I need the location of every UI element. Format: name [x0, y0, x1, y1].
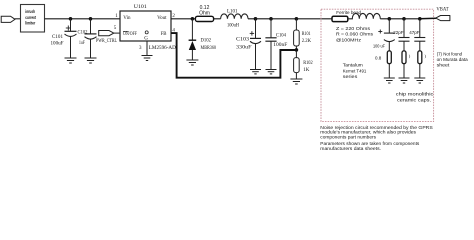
node junction C103 [254, 17, 258, 21]
svg-text:on Murata data: on Murata data [437, 57, 468, 62]
resistor ESR 22pF branch [402, 51, 411, 78]
wire 22pF node to 47pF node [404, 18, 420, 20]
wire feedback FB pin 4 to divider (thick) [171, 33, 296, 78]
svg-text:PWR_CTRL: PWR_CTRL [96, 39, 117, 44]
node junction tantalum cap [388, 17, 392, 21]
svg-text:C102: C102 [78, 30, 88, 35]
svg-text:100uH: 100uH [227, 23, 239, 28]
capacitor C102 1uF [78, 19, 97, 58]
svg-text:FB: FB [161, 32, 167, 37]
svg-text:chip monolithic: chip monolithic [396, 92, 434, 97]
wire R101 node to ferrite bead [296, 18, 332, 20]
svg-text:R102: R102 [303, 61, 313, 66]
resistor ESR 0.8 [375, 51, 391, 78]
node junction C101 [69, 17, 73, 21]
ground D102 [186, 60, 198, 65]
svg-text:Kemet T491: Kemet T491 [343, 68, 367, 73]
wire VIN rail: inrush limiter to U101 Vin [45, 18, 121, 20]
ground C104 [266, 70, 277, 74]
ground 47pF branch [414, 78, 425, 83]
svg-text:series: series [343, 74, 358, 79]
node junction 22pF [402, 17, 406, 21]
node junction R101 [295, 17, 299, 21]
ferrite bead specs label [336, 26, 374, 42]
svg-text:current: current [25, 15, 36, 20]
svg-text:ON/OFF: ON/OFF [123, 32, 137, 37]
svg-text:330uF: 330uF [236, 46, 252, 51]
murata note label [437, 52, 468, 68]
port input connector [1, 16, 15, 22]
ground 22pF branch [399, 78, 410, 83]
resistor R sense 0.12 Ohm [195, 5, 213, 22]
svg-text:ceramic caps.: ceramic caps. [397, 98, 431, 103]
svg-text:components part numbers: components part numbers [320, 135, 376, 140]
ground tantalum branch [384, 78, 395, 83]
wire tantalum node to 22pF node [389, 18, 404, 20]
svg-text:manufacturers data sheets.: manufacturers data sheets. [320, 146, 381, 151]
wire PWR_CTRL to U101 pin 5 [114, 32, 120, 34]
port PWR_CTRL [96, 31, 117, 44]
svg-text:22pF: 22pF [393, 30, 404, 35]
svg-text:D102: D102 [201, 39, 212, 44]
ground U101 pin 3 [142, 56, 153, 61]
svg-text:0.8: 0.8 [375, 56, 382, 61]
svg-text:R = 0.060 Ohms: R = 0.060 Ohms [336, 32, 374, 37]
svg-text:LM2596-ADJ: LM2596-ADJ [149, 46, 178, 51]
resistor R102 1K [294, 50, 314, 79]
svg-text:MBR360: MBR360 [201, 46, 217, 51]
svg-text:inrush: inrush [25, 9, 35, 14]
ceramic note label [396, 92, 434, 103]
svg-text:sheet: sheet [437, 63, 451, 68]
svg-text:2.2K: 2.2K [302, 39, 312, 44]
capacitor C104 100nF [265, 19, 287, 70]
resistor ESR 47pF branch [418, 51, 427, 78]
svg-text:L101: L101 [227, 9, 238, 14]
ground C103 [250, 70, 261, 74]
wire input port to inrush limiter [15, 18, 21, 20]
wire coil to tantalum node [380, 18, 389, 20]
capacitor tantalum 100uF [373, 19, 395, 51]
port VBAT [436, 8, 450, 21]
node junction C104 [269, 17, 273, 21]
svg-text:C101: C101 [52, 35, 63, 40]
svg-text:100uF: 100uF [51, 42, 64, 47]
node junction C102 [89, 17, 93, 21]
svg-text:1K: 1K [303, 68, 310, 73]
svg-text:R101: R101 [302, 32, 311, 37]
svg-text:Ohm: Ohm [199, 10, 210, 16]
wire VOUT: U101 pin 2 to sense resistor [171, 18, 195, 20]
node junction 47pF [418, 17, 422, 21]
svg-text:G: G [144, 36, 148, 41]
ferrite bead body [332, 16, 348, 21]
capacitor 22pF [393, 19, 409, 51]
node junction FB divider [295, 48, 299, 52]
noise rejection dashed enclosure [321, 9, 434, 121]
parameters note label [320, 141, 420, 151]
capacitor C103 330uF [236, 19, 261, 70]
wire U101 pin 3 to ground [146, 41, 148, 55]
wire C103 node to C104 node [256, 18, 272, 20]
wire L101 to C103 node [248, 18, 256, 20]
diode D102 MBR360 [189, 19, 217, 60]
block inrush current limiter [21, 5, 45, 33]
ground R102 [290, 79, 302, 84]
node junction D102 [191, 17, 195, 21]
resistor R101 2.2K [294, 19, 312, 50]
wire 47pF node to VBAT port [419, 17, 436, 20]
ground C101 [65, 58, 77, 63]
svg-text:1uF: 1uF [79, 41, 85, 46]
svg-text:U101: U101 [134, 5, 148, 10]
svg-text:limiter: limiter [25, 21, 35, 26]
svg-text:47pF: 47pF [409, 30, 420, 35]
svg-text:(7) Not found: (7) Not found [437, 52, 463, 57]
ground C102 [85, 58, 97, 63]
ferrite bead inductor coil [348, 13, 381, 18]
capacitor C101 100uF [51, 19, 77, 58]
svg-text:@100MHz: @100MHz [336, 37, 362, 42]
inductor L101 100uH [221, 9, 248, 28]
svg-text:Tantalum: Tantalum [343, 62, 363, 67]
svg-text:100 uF: 100 uF [373, 44, 385, 49]
capacitor 47pF [409, 19, 425, 51]
tantalum note label [343, 62, 367, 79]
svg-text:C103: C103 [236, 38, 250, 43]
svg-text:VBAT: VBAT [436, 8, 448, 13]
svg-text:Z = 220 Ohms: Z = 220 Ohms [336, 26, 371, 31]
svg-text:Vin: Vin [123, 16, 131, 21]
wire C104 node to R101 node [271, 18, 296, 20]
svg-text:100nF: 100nF [273, 43, 287, 48]
svg-text:Vout: Vout [157, 16, 167, 21]
op-amp U101 LM2596-ADJ regulator [120, 11, 171, 41]
svg-text:C104: C104 [276, 33, 286, 38]
wire sense resistor to L101 [214, 18, 221, 20]
noise rejection note label [320, 125, 432, 140]
